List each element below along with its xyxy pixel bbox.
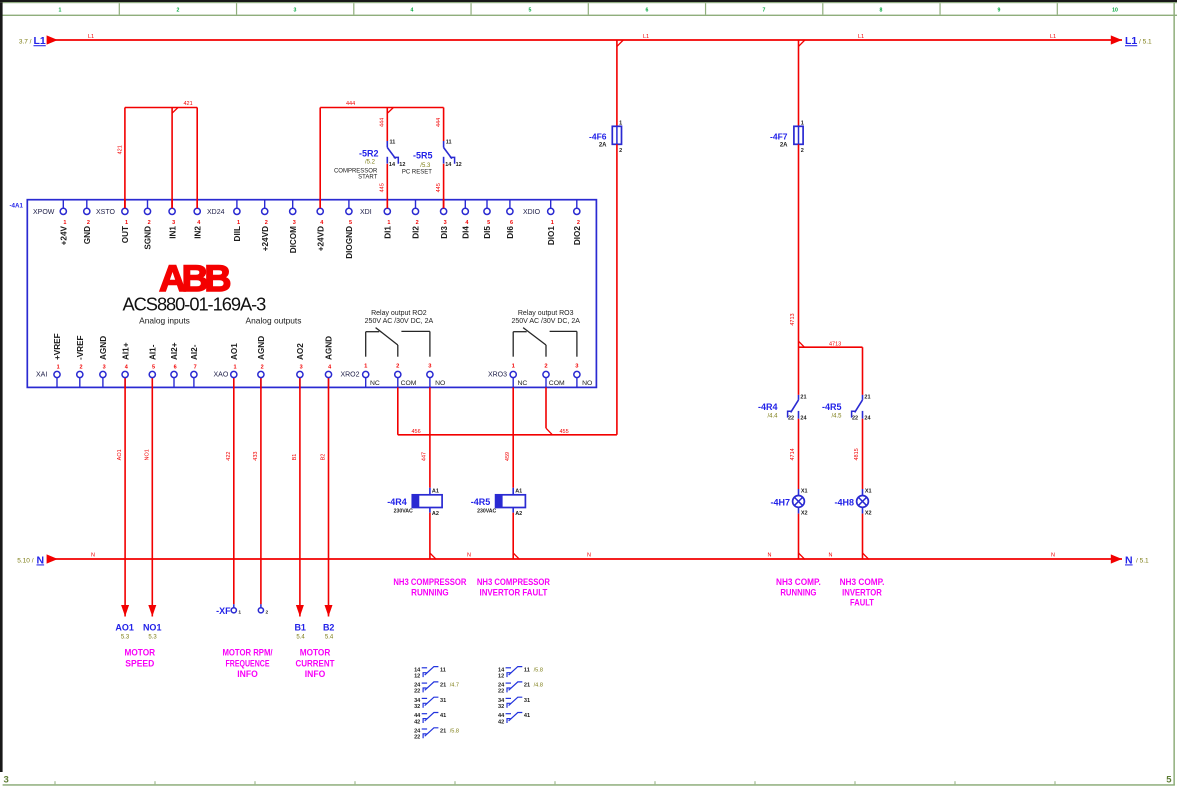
svg-text:INVERTOR FAULT: INVERTOR FAULT [480,587,548,597]
svg-text:XD24: XD24 [207,209,225,216]
svg-text:Relay output RO2: Relay output RO2 [371,310,427,317]
svg-text:1: 1 [63,220,66,226]
svg-text:3: 3 [293,220,296,226]
svg-text:24: 24 [498,683,505,689]
svg-text:445: 445 [380,183,386,192]
svg-text:NO1: NO1 [143,623,162,633]
svg-text:4713: 4713 [829,342,841,348]
svg-text:12: 12 [414,673,420,679]
svg-text:-4R5: -4R5 [822,402,842,412]
svg-text:1: 1 [238,610,241,616]
svg-text:11: 11 [524,667,530,673]
svg-text:5: 5 [1166,774,1172,785]
svg-text:11: 11 [390,139,396,145]
svg-text:A1: A1 [515,488,522,494]
svg-text:AGND: AGND [99,336,108,360]
svg-text:5.3: 5.3 [148,635,157,641]
svg-text:24: 24 [414,683,421,689]
svg-text:-4R4: -4R4 [758,402,778,412]
svg-text:444: 444 [346,101,355,107]
svg-text:421: 421 [184,101,193,107]
svg-text:ACS880-01-169A-3: ACS880-01-169A-3 [123,293,267,314]
svg-text:2: 2 [801,148,804,154]
svg-text:INFO: INFO [305,669,326,679]
svg-text:CURRENT: CURRENT [296,658,335,668]
svg-text:MOTOR: MOTOR [125,648,156,658]
svg-text:AGND: AGND [257,336,266,360]
svg-text:/4.7: /4.7 [450,683,459,689]
svg-text:L1: L1 [88,34,94,40]
svg-text:DICOM: DICOM [289,226,298,253]
svg-text:DI3: DI3 [440,226,449,239]
svg-text:21: 21 [524,683,530,689]
svg-text:DI1: DI1 [384,226,393,239]
svg-text:+24VD: +24VD [316,226,325,251]
svg-text:/5.2: /5.2 [365,160,376,166]
svg-text:32: 32 [498,704,504,710]
svg-text:+24V: +24V [60,225,69,245]
svg-text:MOTOR RPM/: MOTOR RPM/ [222,648,273,658]
svg-text:A2: A2 [432,511,439,517]
svg-text:3: 3 [294,7,297,13]
svg-text:12: 12 [498,673,504,679]
svg-text:447: 447 [422,452,428,461]
svg-text:1: 1 [125,220,128,226]
svg-text:X1: X1 [801,489,808,495]
svg-text:11: 11 [440,667,446,673]
svg-text:2: 2 [416,220,419,226]
svg-text:PC RESET: PC RESET [402,169,432,175]
svg-text:456: 456 [412,429,421,435]
svg-text:DIOGND: DIOGND [345,226,354,259]
svg-text:DI5: DI5 [483,226,492,239]
svg-text:31: 31 [524,698,530,704]
svg-text:A1: A1 [432,488,439,494]
svg-text:2: 2 [544,363,547,369]
svg-text:2: 2 [87,220,90,226]
svg-text:5: 5 [349,220,352,226]
svg-text:N: N [37,554,45,566]
svg-text:L1: L1 [34,35,46,47]
svg-text:22: 22 [498,689,504,695]
svg-text:22: 22 [852,416,858,422]
svg-text:L1: L1 [1125,35,1137,47]
svg-text:B1: B1 [292,454,298,461]
svg-text:2: 2 [619,148,622,154]
svg-text:1: 1 [233,364,236,370]
svg-text:445: 445 [436,183,442,192]
svg-text:24: 24 [414,729,421,735]
svg-text:Relay output RO3: Relay output RO3 [518,310,574,317]
svg-text:AI1+: AI1+ [121,342,130,360]
svg-text:IN1: IN1 [168,226,177,239]
svg-text:NC: NC [518,380,528,387]
svg-text:2: 2 [79,364,82,370]
svg-text:31: 31 [440,698,446,704]
svg-text:/5.3: /5.3 [420,163,431,169]
svg-text:34: 34 [414,698,421,704]
svg-text:NO: NO [582,380,592,387]
svg-text:L1: L1 [858,34,864,40]
svg-text:-XF: -XF [216,606,231,616]
svg-text:AI2-: AI2- [190,344,199,360]
svg-text:NH3 COMP.: NH3 COMP. [840,577,885,587]
svg-text:N: N [587,553,591,559]
svg-text:2: 2 [177,7,180,13]
svg-text:AI1-: AI1- [149,344,158,360]
svg-text:AO1: AO1 [117,449,123,460]
svg-text:7: 7 [763,7,766,13]
svg-text:250V AC /30V DC, 2A: 250V AC /30V DC, 2A [511,318,580,325]
svg-text:+24VD: +24VD [261,226,270,251]
svg-text:-4A1: -4A1 [10,203,24,210]
svg-text:1: 1 [551,220,554,226]
svg-text:44: 44 [498,713,505,719]
svg-text:21: 21 [440,683,446,689]
svg-text:22: 22 [414,689,420,695]
svg-text:2A: 2A [599,143,607,149]
svg-text:444: 444 [380,118,386,127]
svg-text:5: 5 [487,220,490,226]
svg-text:/ 5.1: / 5.1 [1139,38,1152,45]
svg-text:AO1: AO1 [115,623,134,633]
svg-text:5.4: 5.4 [325,635,334,641]
svg-text:-5R2: -5R2 [359,149,379,159]
svg-text:433: 433 [253,452,259,461]
svg-text:-4H8: -4H8 [834,498,854,508]
svg-text:22: 22 [414,735,420,741]
svg-text:8: 8 [880,7,883,13]
svg-text:2: 2 [396,363,399,369]
svg-text:6: 6 [510,220,513,226]
svg-text:XDI: XDI [360,209,372,216]
svg-text:42: 42 [414,719,420,725]
svg-text:459: 459 [505,452,511,461]
svg-text:-5R5: -5R5 [413,151,433,161]
svg-text:N: N [768,553,772,559]
svg-text:24: 24 [864,416,871,422]
svg-text:24: 24 [800,416,807,422]
svg-text:2: 2 [577,220,580,226]
svg-text:14: 14 [498,667,505,673]
svg-text:14: 14 [414,667,421,673]
svg-text:9: 9 [998,7,1001,13]
svg-text:XAI: XAI [36,372,47,379]
svg-text:/5.8: /5.8 [534,667,543,673]
svg-text:1: 1 [619,120,622,126]
svg-text:3: 3 [172,220,175,226]
svg-text:41: 41 [440,713,446,719]
svg-text:RUNNING: RUNNING [780,587,816,597]
svg-text:32: 32 [414,704,420,710]
svg-text:XRO2: XRO2 [340,372,359,379]
svg-text:COM: COM [549,380,565,387]
svg-text:2A: 2A [780,143,788,149]
svg-text:COM: COM [401,380,417,387]
svg-text:2: 2 [148,220,151,226]
svg-text:X1: X1 [865,489,872,495]
svg-text:3: 3 [300,364,303,370]
svg-text:2: 2 [266,610,269,616]
svg-text:421: 421 [117,145,123,154]
svg-text:AGND: AGND [325,336,334,360]
svg-text:FREQUENCE: FREQUENCE [226,658,270,668]
svg-text:DI6: DI6 [506,226,515,239]
svg-text:4714: 4714 [790,448,796,460]
svg-text:11: 11 [446,139,452,145]
svg-text:GND: GND [83,226,92,244]
svg-text:DIO2: DIO2 [573,226,582,246]
svg-text:DIO1: DIO1 [547,226,556,246]
svg-text:INVERTOR: INVERTOR [842,587,882,597]
svg-text:3.7 /: 3.7 / [19,38,32,45]
svg-text:NC: NC [370,380,380,387]
svg-text:Analog outputs: Analog outputs [246,316,302,326]
svg-text:NO1: NO1 [144,449,150,460]
svg-text:-VREF: -VREF [76,335,85,360]
svg-text:3: 3 [444,220,447,226]
svg-text:B2: B2 [323,623,335,633]
svg-text:10: 10 [1112,7,1118,13]
svg-text:-4H7: -4H7 [770,498,790,508]
svg-text:AO2: AO2 [296,343,305,360]
svg-text:-4F6: -4F6 [589,131,607,141]
svg-text:44: 44 [414,713,421,719]
svg-text:2: 2 [265,220,268,226]
svg-text:455: 455 [560,429,569,435]
svg-text:A2: A2 [515,511,522,517]
svg-text:1: 1 [801,120,804,126]
svg-text:AI2+: AI2+ [170,342,179,360]
svg-text:1: 1 [237,220,240,226]
svg-text:N: N [829,553,833,559]
svg-text:RUNNING: RUNNING [411,587,449,597]
svg-text:5.4: 5.4 [296,635,305,641]
svg-text:/4.8: /4.8 [534,683,543,689]
svg-text:14: 14 [445,162,452,168]
svg-text:6: 6 [174,364,177,370]
svg-text:7: 7 [194,364,197,370]
svg-text:12: 12 [456,162,462,168]
svg-text:NH3 COMP.: NH3 COMP. [776,577,821,587]
svg-text:XSTO: XSTO [96,209,115,216]
svg-text:XRO3: XRO3 [488,372,507,379]
svg-text:4713: 4713 [790,313,796,325]
svg-text:41: 41 [524,713,530,719]
svg-text:-4R4: -4R4 [387,497,407,507]
svg-text:OUT: OUT [121,226,130,243]
svg-text:SGND: SGND [144,226,153,250]
svg-text:444: 444 [436,118,442,127]
svg-text:L1: L1 [1050,34,1056,40]
svg-text:1: 1 [57,364,60,370]
svg-text:5: 5 [152,364,155,370]
svg-text:250V AC /30V DC, 2A: 250V AC /30V DC, 2A [365,318,434,325]
svg-text:1: 1 [387,220,390,226]
svg-text:230VAC: 230VAC [394,509,413,515]
svg-text:FAULT: FAULT [850,598,874,608]
svg-text:NH3 COMPRESSOR: NH3 COMPRESSOR [393,577,467,587]
svg-text:DIIL: DIIL [233,226,242,241]
svg-text:NH3 COMPRESSOR: NH3 COMPRESSOR [477,577,551,587]
svg-text:INFO: INFO [237,669,258,679]
svg-text:-4F7: -4F7 [770,131,788,141]
svg-text:N: N [91,553,95,559]
svg-text:NO: NO [435,380,445,387]
svg-text:21: 21 [440,729,446,735]
svg-text:422: 422 [226,452,232,461]
svg-text:L1: L1 [643,34,649,40]
svg-text:/5.8: /5.8 [450,729,459,735]
svg-text:42: 42 [498,719,504,725]
svg-text:N: N [1051,553,1055,559]
svg-text:XPOW: XPOW [33,209,55,216]
svg-text:B1: B1 [294,623,306,633]
svg-text:22: 22 [788,416,794,422]
svg-text:6: 6 [646,7,649,13]
svg-text:Analog inputs: Analog inputs [139,316,190,326]
svg-text:AO1: AO1 [230,343,239,360]
svg-text:3: 3 [4,774,9,785]
svg-text:/ 5.1: / 5.1 [1136,557,1149,564]
svg-text:MOTOR: MOTOR [300,648,331,658]
svg-text:+VREF: +VREF [53,333,62,360]
svg-text:XDIO: XDIO [523,209,541,216]
svg-text:B2: B2 [321,454,327,461]
svg-text:X2: X2 [801,510,808,516]
svg-text:IN2: IN2 [193,226,202,239]
svg-text:4815: 4815 [854,448,860,460]
svg-text:N: N [467,553,471,559]
svg-text:2: 2 [261,364,264,370]
svg-text:X2: X2 [865,510,872,516]
svg-text:5.10 /: 5.10 / [17,557,33,564]
svg-text:/4.5: /4.5 [831,414,842,420]
svg-text:XAO: XAO [214,372,229,379]
svg-text:5: 5 [529,7,532,13]
svg-text:START: START [358,175,377,181]
svg-text:4: 4 [411,7,414,13]
svg-text:SPEED: SPEED [125,658,154,668]
svg-text:12: 12 [399,162,405,168]
svg-text:1: 1 [59,7,62,13]
svg-text:34: 34 [498,698,505,704]
svg-text:14: 14 [389,162,396,168]
svg-text:21: 21 [800,394,806,400]
svg-text:N: N [1125,554,1133,566]
svg-text:COMPRESSOR: COMPRESSOR [334,169,378,175]
svg-text:3: 3 [103,364,106,370]
svg-text:230VAC: 230VAC [477,509,496,515]
svg-text:-4R5: -4R5 [471,497,491,507]
svg-text:DI4: DI4 [462,226,471,239]
svg-text:5.3: 5.3 [121,635,130,641]
svg-text:21: 21 [864,394,870,400]
svg-text:/4.4: /4.4 [767,414,778,420]
svg-text:DI2: DI2 [412,226,421,239]
